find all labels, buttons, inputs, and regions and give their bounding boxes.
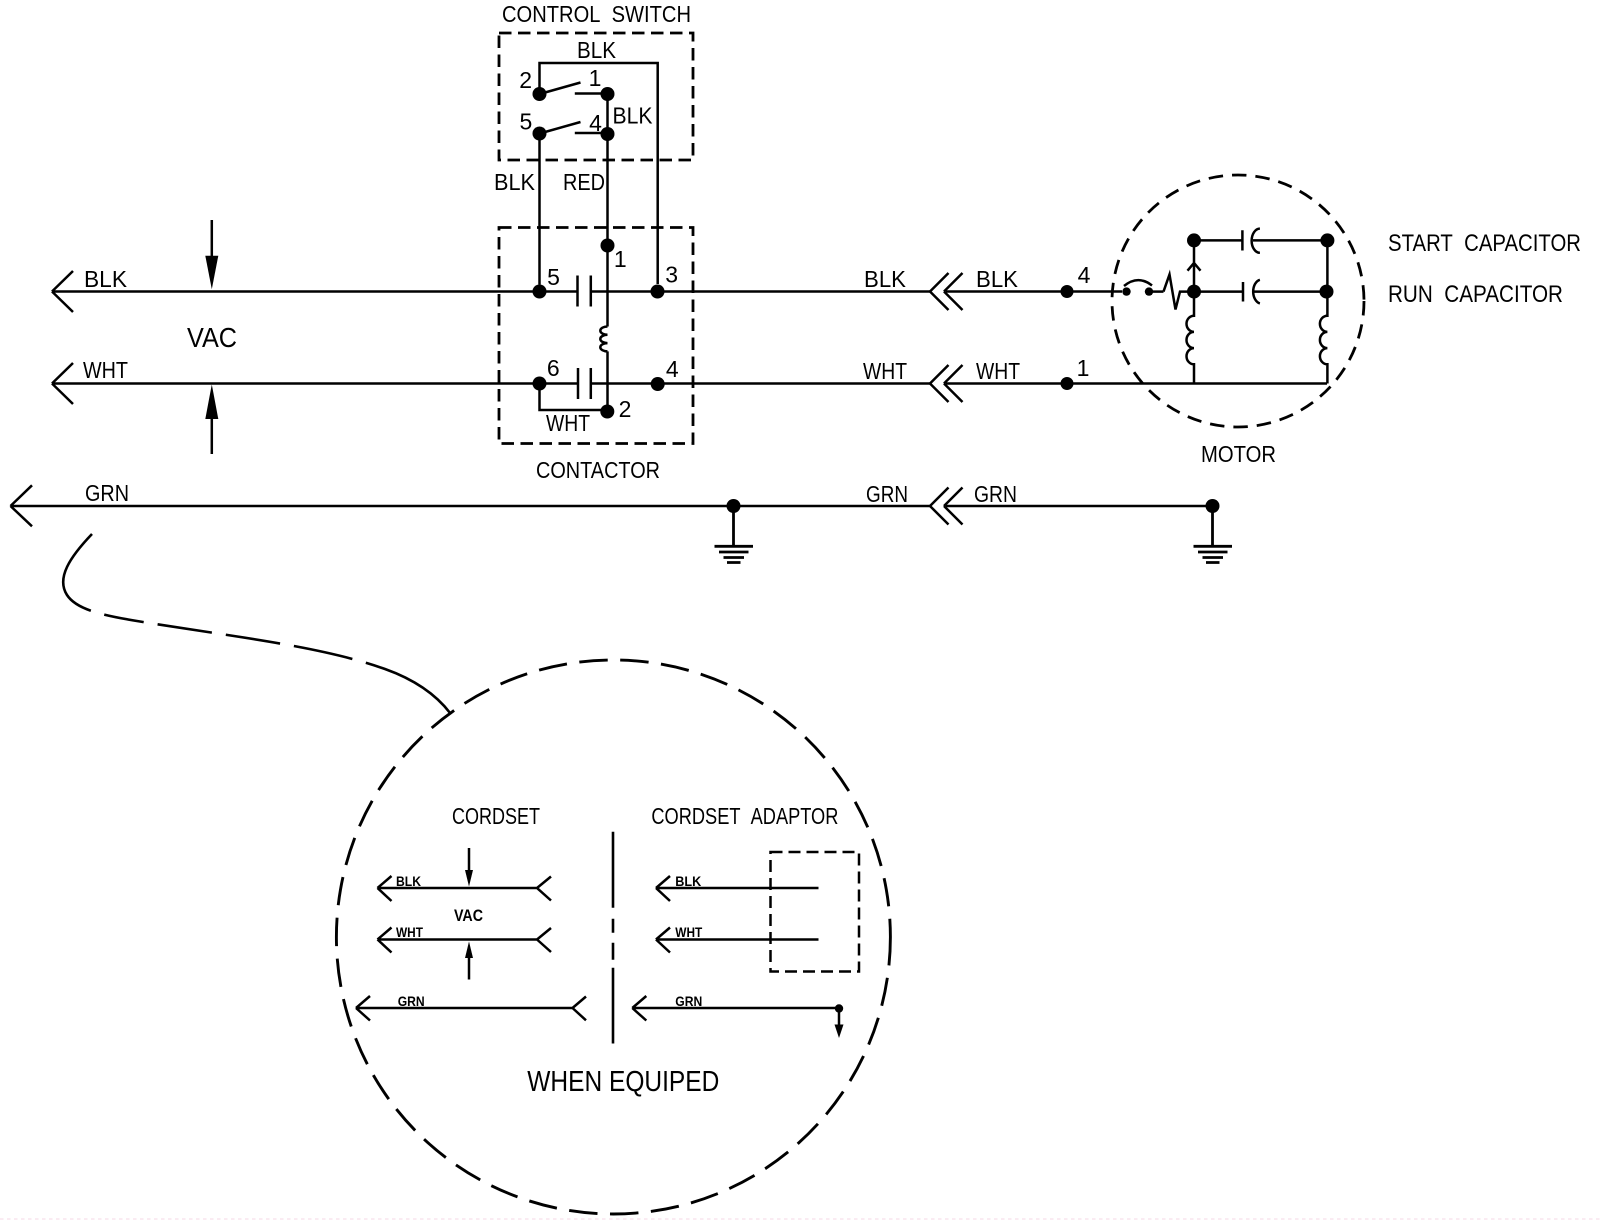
motor main node — [1187, 285, 1201, 299]
svg-text:6: 6 — [547, 355, 560, 381]
adaptor label BLK — [675, 873, 701, 889]
label GRN far left — [85, 480, 129, 506]
label GRN left of connector — [866, 481, 908, 507]
svg-text:GRN: GRN — [398, 993, 425, 1009]
svg-text:2: 2 — [619, 396, 632, 422]
svg-text:WHEN EQUIPED: WHEN EQUIPED — [527, 1066, 719, 1098]
switch blade pole 2-1 — [545, 83, 581, 93]
svg-text:WHT: WHT — [863, 358, 907, 384]
pin label 1 motor lead — [1077, 355, 1090, 381]
svg-text:WHT: WHT — [546, 410, 590, 436]
svg-text:WHT: WHT — [396, 924, 423, 940]
contactor node 4 — [651, 377, 665, 391]
thermal protector arc — [1124, 280, 1152, 286]
svg-text:WHT: WHT — [675, 924, 702, 940]
overload zigzag element — [1164, 275, 1189, 310]
adaptor label GRN — [675, 993, 702, 1009]
cordset wire GRN — [356, 996, 586, 1021]
svg-text:1: 1 — [589, 65, 602, 91]
label GRN right of connector — [974, 481, 1017, 507]
pin label 5 — [520, 109, 533, 135]
run cap right node — [1320, 285, 1334, 299]
wire GRN connector to motor ground — [946, 505, 1213, 508]
pin label 2 — [519, 67, 532, 93]
wire BLK from switch node 5 down to contactor — [538, 134, 541, 285]
label VAC — [187, 322, 237, 353]
wire GRN left with arrow — [11, 485, 931, 526]
svg-text:2: 2 — [519, 67, 532, 93]
svg-text:5: 5 — [520, 109, 533, 135]
node 1 — [601, 87, 615, 101]
connector GRN chevrons — [930, 488, 963, 525]
wire coil bottom to node 2 — [606, 351, 609, 405]
cordset label WHT — [396, 924, 423, 940]
label WHT far left — [83, 357, 128, 383]
motor dashed circle — [1112, 175, 1364, 427]
start winding top node — [1187, 233, 1201, 247]
svg-text:WHT: WHT — [83, 357, 128, 383]
fixed contact stub to node 1 — [575, 92, 601, 95]
contact NO bottom: wire and plates — [540, 368, 652, 399]
svg-text:START CAPACITOR: START CAPACITOR — [1388, 230, 1581, 257]
contactor node 3 — [651, 285, 665, 299]
wire BLK main left with arrow — [52, 271, 540, 312]
relay coil on center wire — [600, 327, 607, 352]
pin label 1 — [589, 65, 602, 91]
svg-text:BLK: BLK — [494, 169, 536, 195]
svg-text:MOTOR: MOTOR — [1201, 441, 1276, 467]
connector BLK chevrons — [930, 273, 963, 310]
svg-text:GRN: GRN — [675, 993, 702, 1009]
adaptor label WHT — [675, 924, 702, 940]
cordset VAC up arrow — [468, 956, 471, 980]
svg-text:4: 4 — [589, 110, 602, 136]
ground node left — [727, 499, 741, 513]
contactor pin label 5 — [547, 264, 560, 290]
svg-text:1: 1 — [1077, 355, 1090, 381]
contactor node 1 — [601, 239, 615, 253]
cordset title — [452, 803, 540, 829]
wire WHT from contactor node4 to connector — [658, 382, 930, 385]
svg-text:WHT: WHT — [976, 358, 1020, 384]
start winding (left coil) — [1187, 292, 1195, 384]
node 4 motor lead — [1061, 285, 1074, 298]
svg-text:GRN: GRN — [866, 481, 908, 507]
adaptor ground stub — [835, 1004, 843, 1012]
svg-text:1: 1 — [614, 246, 627, 272]
svg-text:GRN: GRN — [974, 481, 1017, 507]
svg-text:3: 3 — [665, 262, 678, 288]
contact NO top: wire and plates — [540, 276, 652, 307]
control switch title — [502, 1, 691, 27]
svg-text:CORDSET ADAPTOR: CORDSET ADAPTOR — [651, 803, 838, 829]
svg-text:4: 4 — [666, 356, 679, 382]
label WHT left of connector — [863, 358, 907, 384]
ground symbol left — [715, 506, 754, 563]
svg-text:GRN: GRN — [85, 480, 129, 506]
adaptor wire WHT — [656, 928, 819, 953]
label START CAPACITOR — [1388, 230, 1581, 257]
node 5 — [533, 127, 547, 141]
ground symbol motor — [1194, 506, 1233, 563]
control switch dashed box — [499, 33, 693, 160]
leader curve to detail circle — [63, 534, 453, 717]
thermal protector dots — [1122, 287, 1130, 295]
when equiped caption — [527, 1066, 719, 1098]
svg-text:VAC: VAC — [187, 322, 237, 353]
start cap right node — [1320, 233, 1334, 247]
contactor title — [536, 457, 660, 483]
label BLK left of connector — [864, 266, 907, 292]
cordset VAC down arrow — [468, 848, 471, 872]
label BLK right of node 1 — [613, 103, 654, 129]
svg-text:RED: RED — [563, 169, 605, 195]
ground node motor — [1206, 499, 1220, 513]
label RUN CAPACITOR — [1388, 281, 1563, 308]
wire WHT main left with arrow — [52, 363, 540, 404]
wire BLK from node3 to connector — [658, 290, 931, 293]
svg-text:BLK: BLK — [84, 266, 128, 292]
adaptor dashed box — [771, 852, 860, 972]
svg-text:CONTROL SWITCH: CONTROL SWITCH — [502, 1, 691, 27]
svg-text:BLK: BLK — [976, 266, 1019, 292]
run winding (right coil) — [1320, 240, 1328, 383]
motor title — [1201, 441, 1276, 467]
contactor node 2 — [600, 405, 614, 419]
VAC up arrow — [211, 417, 214, 454]
contactor node 5 — [533, 285, 547, 299]
label WHT inside contactor — [546, 410, 590, 436]
wire RED from switch node 4 down to contactor coil — [606, 134, 609, 327]
svg-text:BLK: BLK — [396, 873, 421, 889]
start capacitor C-start — [1194, 229, 1327, 253]
label BLK right of connector — [976, 266, 1019, 292]
contactor pin label 3 — [665, 262, 678, 288]
cordset wire WHT — [378, 928, 552, 953]
svg-text:BLK: BLK — [864, 266, 907, 292]
node 1 motor lead — [1061, 377, 1074, 390]
switch blade pole 5-4 — [545, 122, 581, 132]
svg-text:BLK: BLK — [675, 873, 701, 889]
VAC down arrow — [211, 220, 214, 258]
svg-text:VAC: VAC — [454, 906, 483, 925]
svg-text:BLK: BLK — [577, 37, 617, 63]
svg-text:CORDSET: CORDSET — [452, 803, 540, 829]
contactor pin label 1 — [614, 246, 627, 272]
center split dashed line — [612, 832, 615, 1044]
adaptor wire GRN — [632, 996, 839, 1021]
label BLK far left — [84, 266, 128, 292]
wire BLK loop from node 2 over to node 3 — [540, 63, 658, 284]
pin label 4 motor lead — [1078, 262, 1091, 288]
centrifugal switch riser with arrowhead — [1188, 240, 1201, 291]
label BLK top — [577, 37, 617, 63]
contactor node 6 — [533, 377, 547, 391]
contactor pin label 2 — [619, 396, 632, 422]
contactor dashed box — [499, 228, 693, 444]
contactor pin label 4 — [666, 356, 679, 382]
svg-text:RUN CAPACITOR: RUN CAPACITOR — [1388, 281, 1563, 308]
cordset adaptor title — [651, 803, 838, 829]
wire to overload element — [1153, 290, 1164, 293]
svg-text:5: 5 — [547, 264, 560, 290]
detail dashed circle — [336, 660, 890, 1214]
svg-text:4: 4 — [1078, 262, 1091, 288]
faint scan artifact line at bottom — [0, 1218, 1600, 1220]
node 2 — [533, 87, 547, 101]
wire node1 to node4 — [606, 94, 609, 134]
run capacitor C-run — [1194, 280, 1327, 304]
contactor pin label 6 — [547, 355, 560, 381]
svg-text:CONTACTOR: CONTACTOR — [536, 457, 660, 483]
pin label 4 — [589, 110, 602, 136]
wire BLK connector to motor — [946, 290, 1122, 293]
cordset label GRN — [398, 993, 425, 1009]
connector WHT chevrons — [930, 365, 963, 402]
adaptor wire BLK — [656, 876, 819, 901]
wire WHT connector into motor bottom rail — [946, 382, 1327, 385]
label BLK below box — [494, 169, 536, 195]
svg-text:BLK: BLK — [613, 103, 654, 129]
fixed contact stub to node 4 — [575, 132, 601, 135]
cordset label VAC — [454, 906, 483, 925]
node 4 — [601, 127, 615, 141]
label WHT right of connector — [976, 358, 1020, 384]
label RED below box — [563, 169, 605, 195]
cordset wire BLK — [378, 876, 552, 901]
cordset label BLK — [396, 873, 421, 889]
wire node 6 down and right to node 2 — [540, 384, 605, 411]
